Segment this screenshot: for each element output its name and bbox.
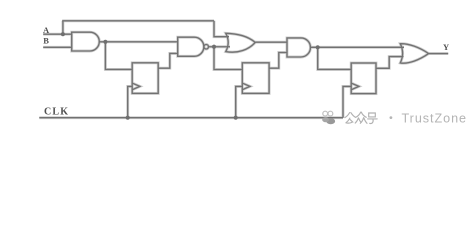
svg-text:CLK: CLK bbox=[44, 107, 69, 118]
svg-text:TrustZone: TrustZone bbox=[402, 111, 467, 125]
watermark text 公众号 (hand drawn strokes) bbox=[345, 112, 377, 123]
watermark logo bbox=[322, 111, 335, 124]
wire set main layer bbox=[39, 21, 448, 118]
CLK bus junction dot 1 bbox=[126, 116, 130, 120]
svg-text:B: B bbox=[43, 36, 49, 46]
node after U4 junction dot bbox=[316, 45, 320, 49]
svg-text:A: A bbox=[43, 25, 50, 35]
node after U2 junction dot bbox=[212, 45, 216, 49]
CLK bus junction dot 2 bbox=[234, 116, 238, 120]
svg-text:Y: Y bbox=[443, 42, 449, 52]
node A junction dot bbox=[61, 32, 65, 36]
node after U1 junction dot bbox=[103, 40, 107, 44]
watermark middle dot bbox=[390, 116, 393, 119]
wire set soft halo layer bbox=[39, 21, 448, 118]
